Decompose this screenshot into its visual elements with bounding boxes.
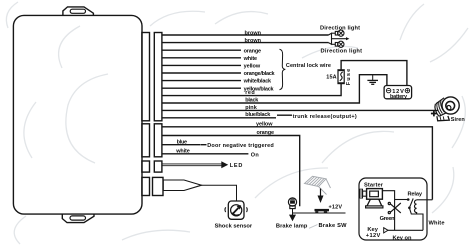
svg-text:orange/black: orange/black — [244, 71, 276, 77]
direction light bulb bottom — [335, 41, 344, 47]
wire brown 2 — [162, 42, 329, 44]
svg-text:Starter: Starter — [364, 182, 384, 188]
svg-text:white: white — [175, 149, 190, 155]
shock sensor — [225, 201, 247, 219]
direction light arrow — [346, 37, 349, 40]
svg-text:white/black: white/black — [243, 79, 272, 85]
svg-text:Key on: Key on — [393, 235, 413, 241]
wire yellow lower to relay (White) — [162, 127, 433, 200]
key triangle arrow — [384, 228, 388, 233]
svg-text:Shock sensor: Shock sensor — [215, 223, 253, 229]
relay coil — [415, 200, 417, 214]
wire key on — [388, 229, 423, 231]
siren plus — [431, 111, 437, 117]
svg-text:pink: pink — [245, 105, 257, 111]
connector bar B section4 — [153, 177, 164, 195]
starter motor icon — [359, 189, 383, 208]
svg-text:Green: Green — [380, 216, 396, 222]
svg-text:Central lock wire: Central lock wire — [286, 63, 331, 69]
svg-text:brown: brown — [245, 30, 262, 36]
brake switch press arrow — [320, 189, 322, 197]
LED wire double line — [162, 164, 222, 166]
svg-text:Direction light: Direction light — [320, 25, 360, 31]
svg-text:brown: brown — [245, 38, 262, 44]
svg-text:Brake lamp: Brake lamp — [276, 223, 308, 229]
svg-text:Relay: Relay — [408, 191, 423, 197]
wire black to ground/battery minus — [162, 75, 387, 103]
svg-text:+12V: +12V — [366, 233, 381, 239]
pedal arm mark — [309, 225, 318, 229]
svg-text:orange: orange — [244, 48, 262, 54]
relay contact dot — [407, 198, 410, 201]
svg-text:Direction light: Direction light — [321, 48, 363, 54]
svg-text:LED: LED — [230, 163, 243, 169]
fuse F1 15A — [338, 70, 344, 84]
connector bar B section1 — [154, 33, 162, 121]
wire orange/black central lock — [162, 72, 241, 74]
svg-text:orange: orange — [257, 130, 275, 136]
siren — [435, 97, 459, 121]
connector bar A section4 — [142, 177, 150, 195]
unit bottom tab — [62, 214, 94, 223]
svg-text:yellow: yellow — [244, 64, 261, 70]
brake switch — [315, 209, 330, 213]
wire orange lower to brake lamp — [162, 136, 300, 207]
wire white/black central lock — [162, 80, 241, 82]
svg-text:yellow: yellow — [256, 121, 273, 127]
wire antenna to shock sensor — [202, 185, 237, 201]
svg-text:black: black — [245, 97, 259, 103]
label pointer trunk release — [277, 114, 292, 116]
wire blue/black — [162, 117, 276, 119]
connector bar A section2 — [142, 124, 150, 157]
wire blue door trigger — [162, 144, 200, 146]
wire orange central lock — [162, 49, 241, 51]
svg-text:Key: Key — [367, 227, 378, 233]
main unit body — [13, 15, 142, 214]
svg-text:blue/black: blue/black — [245, 112, 271, 118]
svg-text:red: red — [245, 90, 255, 96]
relay coil top lead to white — [417, 199, 433, 201]
unit bottom tab slot — [70, 216, 86, 220]
brake lamp down arrow — [289, 215, 296, 222]
direction light bulb top — [335, 30, 344, 36]
ground — [367, 75, 378, 85]
connector bar A section3 — [142, 161, 150, 172]
brake lamp — [288, 198, 296, 209]
central lock brace — [280, 49, 286, 89]
unit top tab slot — [70, 9, 85, 13]
svg-text:On: On — [251, 152, 260, 158]
connector bar A section1 — [142, 33, 150, 121]
svg-text:blue: blue — [177, 139, 188, 145]
brake lamp drop wire — [292, 208, 294, 215]
wire branch to relay contact — [395, 199, 408, 201]
wire brown 1 — [162, 34, 329, 36]
wire pink to siren — [162, 109, 438, 111]
connector bar B section2 — [154, 124, 162, 157]
svg-text:Siren: Siren — [451, 117, 466, 123]
unit top tab — [63, 7, 94, 16]
svg-text:battery: battery — [390, 94, 408, 100]
svg-text:+12V: +12V — [329, 205, 343, 211]
svg-text:white: white — [243, 56, 258, 62]
LED arrowhead — [221, 161, 228, 168]
relay pivot dot — [408, 207, 411, 210]
wire red to fuse — [162, 84, 341, 96]
svg-text:Door negative triggered: Door negative triggered — [207, 143, 274, 149]
wire starter to relay via green — [382, 191, 394, 231]
connector bar B section3 — [154, 161, 162, 172]
svg-text:Fuse: Fuse — [346, 69, 352, 86]
antenna arrow — [163, 180, 201, 191]
wire white on — [162, 153, 249, 155]
fuse top rail to battery plus — [341, 61, 407, 86]
svg-text:Brake SW: Brake SW — [319, 223, 348, 229]
scissors — [388, 202, 401, 213]
wire white central lock — [162, 57, 241, 59]
relay pivot lead — [409, 208, 423, 231]
relay blade — [409, 199, 413, 208]
relay box — [359, 178, 427, 240]
svg-text:trunk release(output+): trunk release(output+) — [293, 114, 357, 120]
label pointer door negative — [200, 144, 206, 146]
brake wire horizontal — [293, 212, 346, 214]
wire yellow/black central lock — [162, 87, 241, 89]
battery 12V — [384, 86, 412, 101]
wire yellow central lock — [162, 64, 241, 66]
svg-text:15A: 15A — [326, 74, 336, 80]
direction light bracket — [329, 33, 347, 44]
svg-text:White: White — [429, 221, 445, 227]
brake pedal sketch — [305, 176, 331, 194]
